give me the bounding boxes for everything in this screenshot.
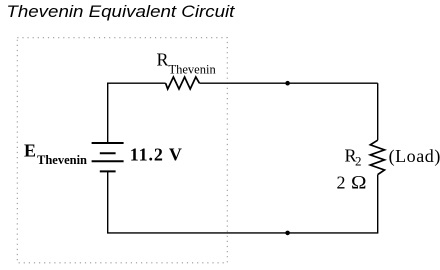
wire: battery positive terminal up and across to R_Thevenin	[108, 83, 166, 143]
battery E_Thevenin: plate 1 (long, +)	[92, 142, 124, 144]
wire: top-right corner down to R2	[377, 83, 379, 140]
node: top junction dot	[285, 81, 290, 86]
svg-text:R: R	[157, 50, 169, 70]
battery E_Thevenin: plate 4 (short, -)	[100, 170, 116, 172]
svg-text:Thevenin Equivalent Circuit: Thevenin Equivalent Circuit	[6, 3, 236, 21]
Thevenin equivalent dashed boundary box	[17, 38, 227, 263]
wire: R2 down, across bottom, up to battery negative terminal	[108, 171, 378, 233]
svg-text:E: E	[24, 141, 36, 161]
svg-text:11.2 V: 11.2 V	[130, 145, 183, 165]
svg-text:Ω: Ω	[351, 173, 367, 194]
resistor R2 (vertical zigzag)	[370, 140, 384, 174]
svg-text:Thevenin: Thevenin	[169, 63, 217, 77]
wire: R_Thevenin to top-right corner	[199, 82, 377, 84]
battery E_Thevenin: plate 3 (long)	[92, 160, 124, 162]
svg-text:Thevenin: Thevenin	[37, 153, 87, 167]
svg-text:2: 2	[337, 173, 346, 193]
battery E_Thevenin: plate 2 (short)	[100, 152, 116, 154]
node: bottom junction dot	[285, 231, 290, 236]
resistor R_Thevenin (zigzag)	[166, 77, 200, 89]
svg-text:2: 2	[355, 154, 362, 169]
svg-text:(Load): (Load)	[389, 146, 440, 167]
